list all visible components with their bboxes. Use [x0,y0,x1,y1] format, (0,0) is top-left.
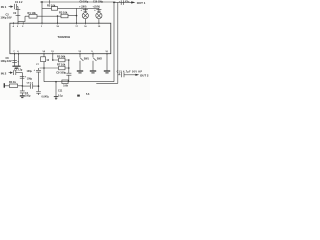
capacitor C7 branch [38,68,40,95]
node R7 right dot [68,67,70,69]
capacitor C9 plates [66,73,71,75]
ground SW1 [77,70,83,72]
wire C1 to node [17,6,18,8]
pin 16 tick top [84,22,86,24]
op-amp U1 IC box [10,23,111,54]
label SW2 [97,57,103,60]
svg-text:C2 2.2µ: C2 2.2µ [14,69,23,72]
capacitor C12 out2 [122,72,124,77]
node rail junction dot [41,1,43,3]
pin 10 tick bottom [106,53,108,55]
wire pin6 down [18,54,20,66]
resistor R1 [25,15,42,17]
node IN1 label [1,5,7,9]
ground bar pins 6/7 [12,65,20,67]
label R1 [28,11,37,15]
pin 17 tick top [76,22,78,24]
svg-text:R7 10k: R7 10k [57,63,66,67]
switch SW2 [93,54,96,71]
svg-text:100µ: 100µ [27,70,33,73]
label R4 [9,80,16,84]
pin 3 tick top [17,22,19,24]
label 5.6 ohm [86,93,90,96]
label C7 [27,64,40,73]
label C8 [27,83,34,85]
svg-text:C9 100µ: C9 100µ [56,70,66,74]
svg-text:R2 10k: R2 10k [47,4,56,8]
capacitor C2 plates [16,10,21,16]
label C10 [42,95,50,98]
resistor R2 [42,7,99,9]
capacitor above speaker 1 [83,8,88,12]
ground pin10 bar2 [105,72,108,74]
speaker SP2 cross [97,13,101,17]
wire rail drop to pin [41,2,43,23]
ground bar zobel [54,96,58,98]
wire VCC rail [40,1,116,3]
pin 7 tick bottom [14,53,16,55]
label C9 [56,70,66,74]
label small mark [77,95,80,97]
resistor R5 [53,59,69,61]
pin 4 tick top [13,22,15,24]
ground SW2 [90,70,96,72]
wire OUT1 [114,1,132,3]
label C2 value [1,13,12,19]
wire R1 to R3 junction [42,15,58,17]
speaker SP1 cross [83,13,87,17]
ground bar 2 pins 6/7 [15,67,18,69]
wire pin14 down [43,54,45,82]
wire bottom bus [44,81,114,83]
ground SW1 bar2 [78,72,81,74]
label R8 [63,85,68,88]
label R2 [47,4,56,8]
node rail end dot [113,2,115,4]
label R5 [57,55,66,59]
wire pin7 down [14,54,16,66]
pin 1 tick top [41,22,43,24]
label C4 [14,69,23,72]
label SW1 [84,57,90,60]
svg-text:C10 100µ: C10 100µ [93,2,104,4]
label OUT 1 [137,1,146,5]
wire input node down to pin [17,7,19,24]
ground bar C6 second [21,97,23,99]
capacitor above speaker 2 [96,8,101,12]
wire IN1 arrow [9,6,13,8]
label R3 [59,11,68,15]
wire C9 branch [68,60,70,82]
label plus C5 [17,59,19,63]
label plus C6a [25,76,27,79]
switch SW1 [80,54,83,71]
wire speaker2 to pin [98,19,100,24]
node junction dot pin5 [57,15,59,17]
capacitor C6a plates [20,76,25,78]
pin 2 tick top [22,22,24,24]
wire pin13 down [52,54,54,60]
svg-text:SW1: SW1 [84,57,90,60]
wire VCC tick [49,0,51,4]
svg-text:OUT 2: OUT 2 [140,73,149,77]
svg-text:0.1µ: 0.1µ [58,94,63,97]
svg-text:100µ 16V: 100µ 16V [1,59,12,63]
label C6 [25,92,31,98]
pin 6 tick bottom [18,53,20,55]
label C6a [27,79,33,81]
svg-text:R3 10k: R3 10k [59,11,68,15]
resistor R4 [5,85,22,87]
wire speaker1 to pin [84,19,86,24]
pin 13 tick bottom [52,53,54,55]
capacitor C10 plates [36,92,41,94]
label zobel left [58,90,63,98]
node zobel dot [55,81,57,83]
svg-text:IN 2: IN 2 [1,71,7,75]
wire OUT2 arrow [124,74,136,76]
node pin13 dot [52,59,54,61]
label C1 value [15,1,23,4]
svg-text:OUT 1: OUT 1 [137,1,146,5]
label U1 part number [58,35,71,39]
svg-text:IN 1: IN 1 [1,5,7,9]
pin numbers top [13,25,101,28]
wire output line B down [117,2,119,83]
wire C4 to node2 [16,73,22,91]
speaker SP1 circle [82,13,88,19]
label C5 [1,57,12,63]
label plus 2 [94,8,96,12]
capacitor C1 [14,4,16,9]
resistor R10 below pin14 [41,57,46,62]
wire R3 right to bus and pin [76,8,78,23]
svg-text:R1 10k: R1 10k [28,11,37,15]
svg-text:100µ 16V: 100µ 16V [1,15,12,19]
svg-text:100µ: 100µ [25,95,31,98]
wire output line A down [113,2,115,81]
node IN2 label [1,71,7,75]
label R10 [46,59,49,62]
label C3 cap1 [79,2,89,9]
node ch2 join dot [38,85,40,87]
capacitor C13 out1 [121,0,123,5]
resistor R3 [58,15,77,18]
ground SW2 bar2 [91,72,94,74]
svg-text:0.047µ: 0.047µ [42,95,50,98]
node pin14 dot [43,67,45,69]
svg-text:C9 100µ: C9 100µ [80,2,89,4]
wire IN2 arrow [9,72,13,74]
svg-text:SW2: SW2 [97,57,103,60]
svg-text:100µ: 100µ [27,79,33,81]
node junction dot R3 right [76,15,78,17]
capacitor C6 on node2 [20,91,25,96]
pin 15 tick top [98,22,100,24]
wire OUT1 arrowhead [131,1,135,3]
svg-text:TA8220H: TA8220H [58,35,71,39]
svg-text:5.6k: 5.6k [63,85,68,88]
ground bar C6 [20,95,25,97]
pin numbers bottom [13,50,108,53]
capacitor C8 series ch2 [22,84,38,89]
capacitor C5 plates [12,60,17,62]
wire zobel down [55,82,57,100]
svg-text:R4 1k: R4 1k [9,80,16,84]
node R5 right dot [68,59,70,61]
wire R3 left down to pin [57,16,59,23]
label R7 [57,63,66,67]
svg-text:C13 4.7µF 50V HP: C13 4.7µF 50V HP [117,70,143,73]
label out2 cap [117,70,143,73]
resistor R7 [40,67,69,69]
label OUT 2 [140,73,149,77]
label plus 1 [81,8,83,12]
ground bar zobel 2 [55,97,57,99]
pin 18 tick top [57,22,59,24]
pin 12 tick bottom [79,53,81,55]
resistor R8 on bus [62,80,68,84]
speaker SP2 circle [96,13,102,19]
label plus out2 [119,72,121,75]
node R4 junction dot [22,85,24,87]
ground pin10 [104,70,110,72]
capacitor C7 plates [36,70,41,72]
wire line2 bottom [96,82,118,84]
node OUT2 junction [118,74,121,76]
svg-text:R5 56k: R5 56k [57,55,66,59]
label out cap [119,0,130,3]
label C2 [13,12,17,15]
wire jog from node to R1 [18,16,25,21]
pin 14 tick bottom [43,53,45,55]
pin 9 tick bottom [92,53,94,55]
wire pin10 down [106,54,108,71]
svg-text:C1 2.2: C1 2.2 [15,1,23,4]
resistor R4 terminal bar [3,83,5,88]
capacitor C4 in2 [14,70,16,75]
svg-text:C11: C11 [58,90,63,93]
label C4 cap2 [93,2,104,9]
